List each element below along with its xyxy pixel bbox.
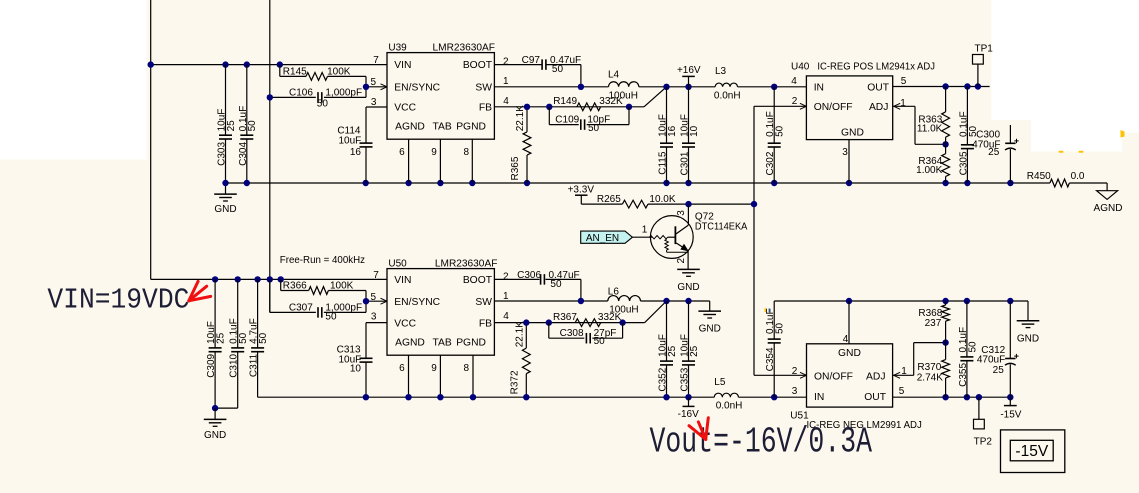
svg-text:GND: GND [841,128,864,139]
svg-text:16: 16 [350,147,362,158]
svg-text:TAB: TAB [433,338,452,349]
svg-text:4: 4 [791,76,797,87]
capacitor C303 [225,65,227,136]
svg-text:EN/SYNC: EN/SYNC [394,297,440,308]
wire L5 to U51 IN [738,396,806,398]
capacitor C311 [257,279,259,348]
svg-text:100uH: 100uH [609,90,638,101]
svg-text:U40: U40 [791,61,810,72]
resistor R363 [945,87,947,112]
svg-text:C301: C301 [680,151,691,175]
svg-text:5: 5 [371,77,377,88]
svg-text:GND: GND [838,348,861,359]
svg-text:25: 25 [993,365,1005,376]
ground GND4 mid [709,301,711,311]
svg-text:1: 1 [503,76,509,87]
svg-text:50: 50 [258,332,269,344]
svg-text:4: 4 [503,96,509,107]
svg-text:470uF: 470uF [977,354,1005,365]
svg-text:25: 25 [667,345,678,357]
wire C310 bottom to gnd [215,407,238,409]
svg-text:SW: SW [475,82,492,93]
capacitor C355 [966,301,968,357]
wire U51 GND pin [848,301,850,344]
capacitor C304 [246,65,248,136]
resistor R366 [280,279,282,290]
svg-text:C106: C106 [289,87,313,98]
svg-text:C354: C354 [765,347,776,371]
svg-text:FB: FB [479,102,492,113]
wire L3 to U40 IN [738,86,807,88]
svg-text:C302: C302 [765,151,776,175]
svg-text:6: 6 [399,147,405,158]
wire L6 to gnd corner [641,300,710,302]
svg-text:50: 50 [967,341,978,353]
wire U51 ADJ [893,374,914,376]
capacitor C115 [666,87,668,143]
svg-text:R367: R367 [553,312,577,323]
label box -15V [1001,430,1065,473]
wire gnd bus top [226,182,1050,184]
svg-text:OUT: OUT [864,392,886,403]
op-amp U50 LMR23630AF regulator box [387,269,494,356]
op-amp U40 IC-REG POS LM2941x ADJ box [806,76,892,140]
svg-text:50: 50 [238,332,249,344]
wire SW U50 output [494,300,607,302]
capacitor C305 [966,87,968,145]
svg-text:-15V: -15V [1000,409,1021,420]
wire vertical feed second [269,0,271,312]
yellow mark mid [765,308,767,312]
resistor R367 [575,319,601,327]
wire U51 OUT rail -15V [893,396,1011,398]
svg-text:7: 7 [373,270,379,281]
svg-text:5: 5 [371,292,377,303]
svg-text:2: 2 [503,271,509,282]
resistor R145 [279,65,281,77]
svg-text:9: 9 [431,363,437,374]
capacitor C106 [270,96,316,98]
svg-text:AGND: AGND [395,122,425,133]
wire L4 to L3 [639,86,715,88]
svg-text:C307: C307 [289,302,313,313]
wire VCC U50 to C313 [366,322,387,324]
svg-text:GND: GND [699,323,721,334]
wire VCC U39 to C114 [366,106,387,108]
svg-text:AGND: AGND [395,338,425,349]
svg-text:BOOT: BOOT [463,275,493,286]
wire TAB pin U50 [439,355,441,397]
svg-text:C306: C306 [517,270,541,281]
svg-text:0.0nH: 0.0nH [716,401,743,412]
svg-text:IN: IN [814,83,824,94]
svg-text:3: 3 [792,386,798,397]
svg-text:2: 2 [503,57,509,68]
svg-text:2: 2 [676,258,687,264]
resistor R149 [577,103,601,111]
svg-text:ADJ: ADJ [869,102,888,113]
resistor R450 [1050,179,1070,187]
svg-text:C352: C352 [658,367,669,391]
wire U51 ON/OFF [754,374,807,376]
wire PGND pin U39 [471,139,473,183]
svg-text:C310: C310 [229,353,240,377]
capacitor C97 boot [494,64,541,66]
svg-text:ON/OFF: ON/OFF [814,372,853,383]
svg-text:ADJ: ADJ [866,372,885,383]
svg-text:EN/SYNC: EN/SYNC [394,82,440,93]
svg-text:50: 50 [325,312,337,323]
svg-text:-15V: -15V [1015,443,1048,460]
svg-text:R366: R366 [283,281,307,292]
svg-text:50: 50 [775,322,786,334]
svg-text:R365: R365 [510,156,521,180]
wire U40 GND pin [848,140,850,183]
svg-text:C355: C355 [958,363,969,387]
wire U40 ADJ [893,105,915,107]
svg-text:TAB: TAB [433,122,452,133]
power -16V [688,397,690,406]
capacitor C114 [360,142,373,144]
svg-text:PGND: PGND [456,338,486,349]
svg-text:C109: C109 [555,115,579,126]
svg-text:L3: L3 [715,66,727,77]
capacitor C312 polarized [1009,301,1011,359]
svg-text:R372: R372 [510,370,521,394]
svg-text:AN_EN: AN_EN [586,233,619,244]
resistor R368 [945,301,947,305]
wire EN/SYNC U39 [366,86,387,88]
svg-text:VIN=19VDC: VIN=19VDC [47,284,189,317]
svg-text:50: 50 [588,123,600,134]
capacitor C352 [666,301,668,361]
svg-text:5: 5 [899,386,905,397]
svg-text:R149: R149 [553,96,577,107]
wire vertical feed left [150,0,152,279]
ground AGND symbol [1097,191,1118,200]
capacitor C307 [269,279,271,312]
resistor R365 [526,107,528,132]
ground GND3 bottom-left [214,408,216,419]
wire FB net U50 [494,322,644,324]
red arrow VIN [189,281,211,301]
resistor R364 [945,144,947,153]
svg-text:0.0nH: 0.0nH [714,90,741,101]
svg-text:R265: R265 [597,194,621,205]
svg-text:LMR23630AF: LMR23630AF [433,43,496,54]
wire -16V bus [258,396,715,398]
svg-text:VCC: VCC [394,318,416,329]
svg-text:3: 3 [371,97,377,108]
white patch top-right [992,0,1139,120]
inductor L4 [609,82,639,87]
yellow marks right edge [1121,130,1125,138]
svg-text:-16V: -16V [678,409,699,420]
net label AN_EN flag [581,231,633,243]
wire U40 ON/OFF [754,105,806,107]
svg-text:C353: C353 [680,367,691,391]
svg-text:Vout=-16V/0.3A: Vout=-16V/0.3A [650,422,873,463]
svg-text:R145: R145 [283,67,307,78]
svg-text:C308: C308 [560,328,584,339]
svg-text:ON/OFF: ON/OFF [814,102,853,113]
wire FB diagonal to SW node [644,87,667,107]
svg-text:10.0K: 10.0K [649,194,675,205]
svg-text:8: 8 [464,147,470,158]
svg-text:25: 25 [216,332,227,344]
svg-text:3: 3 [371,312,377,323]
svg-text:LMR23630AF: LMR23630AF [435,259,498,270]
inductor L3 [715,83,737,87]
capacitor C300 polarized [1009,125,1011,143]
svg-text:L5: L5 [714,377,726,388]
svg-text:TP1: TP1 [975,43,994,54]
svg-text:9: 9 [431,147,437,158]
svg-text:50: 50 [594,336,606,347]
svg-text:16: 16 [667,125,678,137]
svg-text:25: 25 [226,120,237,132]
svg-text:IN: IN [814,392,824,403]
svg-text:C115: C115 [658,151,669,175]
svg-text:10: 10 [350,364,362,375]
svg-text:50: 50 [247,120,258,132]
svg-text:FB: FB [479,318,492,329]
svg-text:100uH: 100uH [609,304,638,315]
wire TAB pin U39 [439,139,441,183]
svg-text:VIN: VIN [394,60,411,71]
svg-text:237: 237 [925,318,942,329]
capacitor C302 [773,87,775,143]
svg-text:1: 1 [900,98,906,109]
svg-text:R450: R450 [1027,171,1051,182]
svg-text:GND: GND [214,204,236,215]
svg-text:2: 2 [792,96,798,107]
inductor L6 [608,296,641,301]
wire top input rail [151,64,387,66]
svg-text:0.0: 0.0 [1071,171,1085,182]
capacitor C354 [773,301,775,339]
svg-text:GND: GND [677,282,699,293]
svg-text:10uF: 10uF [339,135,362,146]
svg-text:6: 6 [399,363,405,374]
test point TP1 [977,64,979,86]
svg-text:C304: C304 [238,142,249,166]
power -15V [1009,397,1011,405]
wire EN/SYNC U50 [366,300,387,302]
wire FB diagonal to SW node bottom [645,301,667,323]
test point TP2 [978,397,980,419]
op-amp U39 LMR23630AF regulator box [387,53,494,140]
svg-text:GND: GND [1017,334,1039,345]
svg-text:OUT: OUT [867,83,889,94]
svg-text:50: 50 [775,125,786,137]
svg-text:50: 50 [550,279,562,290]
wire AN_EN to Q72 base [632,236,652,238]
svg-text:8: 8 [464,363,470,374]
svg-text:22.1K: 22.1K [515,321,526,347]
wire U40 OUT rail [893,86,990,88]
capacitor C313 [360,357,373,359]
capacitor C353 [688,301,690,361]
svg-text:VIN: VIN [394,275,411,286]
svg-text:3: 3 [676,210,687,216]
ground GND1 top-left [225,183,227,194]
svg-text:1,000pF: 1,000pF [325,87,362,98]
svg-text:100K: 100K [330,281,354,292]
capacitor C309 [214,279,216,348]
svg-text:2.74K: 2.74K [917,373,943,384]
svg-text:11.0K: 11.0K [917,124,943,135]
wire PGND pin U50 [472,355,474,397]
capacitor C308 [548,323,550,339]
svg-text:5: 5 [901,76,907,87]
svg-text:+3.3V: +3.3V [568,185,595,196]
wire AGND pin U50 [408,355,410,397]
svg-text:TP2: TP2 [974,436,993,447]
svg-text:L4: L4 [608,69,620,80]
svg-text:BOOT: BOOT [463,60,493,71]
svg-text:IC-REG POS LM2941x ADJ: IC-REG POS LM2941x ADJ [817,61,935,72]
wire bottom input rail [151,278,387,280]
svg-text:50: 50 [552,64,564,75]
svg-text:10: 10 [689,125,700,137]
inductor L5 [714,393,738,397]
op-amp U51 IC-REG NEG LM2991 ADJ box [807,344,893,407]
svg-text:C309: C309 [206,353,217,377]
capacitor C310 [237,279,239,348]
svg-text:C97: C97 [522,55,541,66]
resistor R265 [581,203,622,205]
resistor R372 [525,323,527,349]
svg-text:C303: C303 [217,142,228,166]
transistor Q72 DTC114EKA [650,216,693,259]
wire AGND pin U39 [408,139,410,183]
svg-text:VCC: VCC [394,102,416,113]
red arrow Vout [689,418,708,440]
svg-text:PGND: PGND [456,122,486,133]
capacitor C301 [688,87,690,143]
resistor R370 [945,343,947,360]
svg-text:4: 4 [843,334,849,345]
svg-text:100K: 100K [327,67,351,78]
svg-text:3: 3 [842,147,848,158]
svg-text:R370: R370 [917,362,941,373]
wire enable vertical [753,106,755,375]
svg-text:4: 4 [503,311,509,322]
svg-text:50: 50 [317,99,329,110]
wire SW U39 output [494,86,608,88]
power +16V [688,76,690,86]
capacitor C306 boot [494,278,539,280]
svg-text:GND: GND [204,430,226,441]
svg-text:1: 1 [503,291,509,302]
svg-text:DTC114EKA: DTC114EKA [695,222,748,233]
svg-text:+16V: +16V [677,65,701,76]
svg-text:C305: C305 [958,151,969,175]
ground GND2 Q72 emitter [687,250,689,269]
capacitor C109 [548,107,550,125]
svg-text:AGND: AGND [1094,203,1123,214]
white patch top-left [0,0,147,160]
wire gnd rail bottom right [774,300,1028,302]
svg-text:25: 25 [988,147,1000,158]
svg-text:Free-Run = 400kHz: Free-Run = 400kHz [280,255,365,266]
svg-text:1: 1 [642,225,648,236]
svg-text:C311: C311 [249,353,260,377]
svg-text:7: 7 [373,55,379,66]
wire FB net U39 [494,106,644,108]
svg-text:L6: L6 [608,286,620,297]
svg-text:1.00K: 1.00K [916,165,942,176]
svg-text:U50: U50 [388,259,407,270]
ground GND5 right [1027,301,1029,321]
svg-text:25: 25 [689,345,700,357]
svg-text:U39: U39 [388,43,407,54]
svg-text:SW: SW [475,297,492,308]
